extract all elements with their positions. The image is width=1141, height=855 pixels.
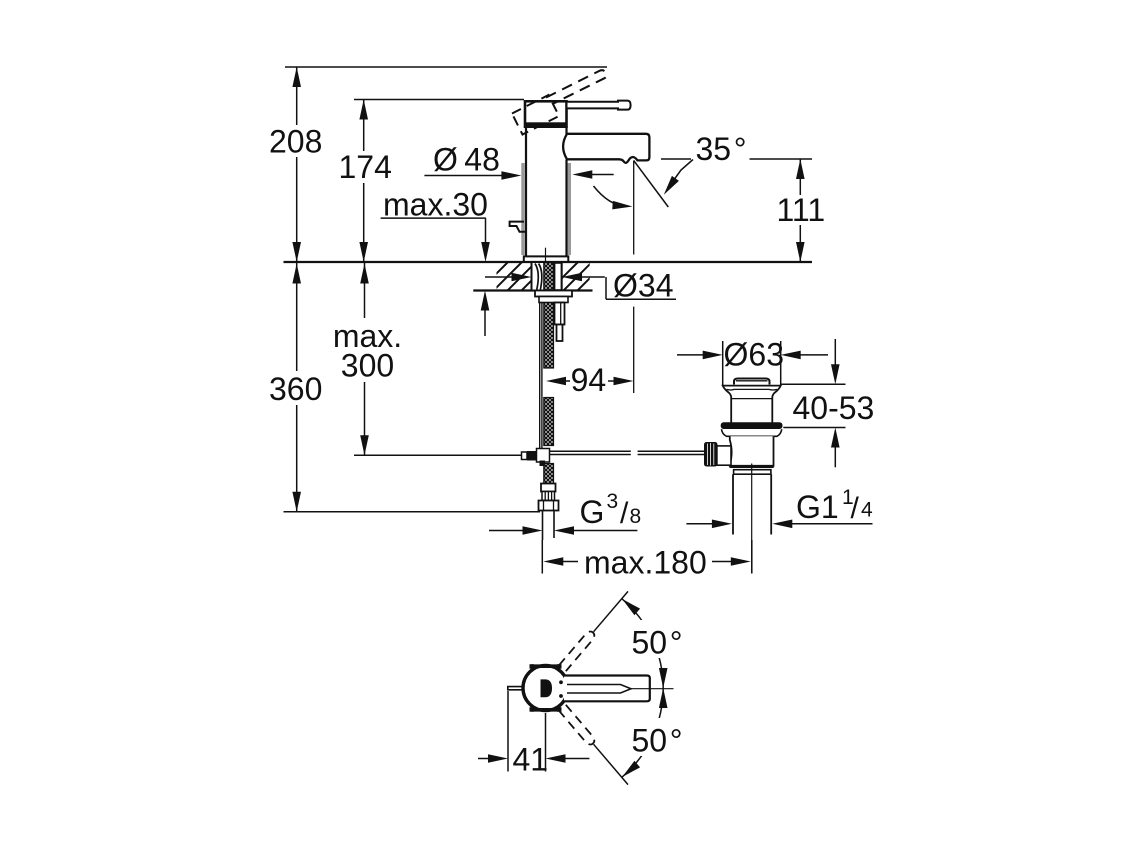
pop-up rod upper xyxy=(555,303,565,325)
drain knob xyxy=(704,442,718,467)
svg-text:94: 94 xyxy=(571,362,607,398)
pop-up lever tab xyxy=(510,222,526,232)
dim 40-53 arrows xyxy=(834,339,836,366)
svg-text:3: 3 xyxy=(607,490,619,513)
svg-text:360: 360 xyxy=(269,371,322,407)
dim G3/8 arrows xyxy=(489,530,524,532)
faucet base plate xyxy=(524,256,569,262)
drain plug dome xyxy=(734,379,770,385)
dim 40-53 bottom ref xyxy=(783,427,845,429)
cartridge D mark xyxy=(541,679,553,697)
G3/8 tube xyxy=(542,511,544,541)
drain O-ring xyxy=(721,422,783,429)
svg-text:max.180: max.180 xyxy=(584,545,707,581)
svg-text:max.30: max.30 xyxy=(383,187,488,223)
dim 41 arrows xyxy=(478,758,493,760)
dimension max300 xyxy=(364,263,366,318)
top view spout slot xyxy=(567,685,631,694)
spout outlet vertical reference xyxy=(633,161,635,255)
dim Ø34 arrows xyxy=(485,276,516,278)
dim 40-53 top ref xyxy=(781,383,845,385)
locknut below deck xyxy=(535,291,572,297)
shank thread curves xyxy=(535,264,542,290)
top view center line xyxy=(631,688,674,690)
50deg text backgrounds xyxy=(626,620,688,658)
svg-text:111: 111 xyxy=(777,192,826,228)
label Ø34 xyxy=(605,277,607,299)
drain tailpipe xyxy=(732,474,734,534)
dim max180 xyxy=(751,540,753,574)
top view 50deg arcs xyxy=(622,599,663,688)
dimension 111 xyxy=(799,159,801,195)
supply hose segment 2 xyxy=(544,398,554,446)
svg-text:G: G xyxy=(580,494,605,530)
label 35deg xyxy=(661,158,691,160)
handle housing bottom band xyxy=(524,122,568,127)
35 degree inclined line xyxy=(634,161,669,208)
svg-text:Ø34: Ø34 xyxy=(613,268,673,304)
arc arrows xyxy=(619,596,640,616)
faucet body xyxy=(526,127,567,256)
top view 50deg angle legs xyxy=(594,591,628,631)
supply hose segment 3 xyxy=(544,464,554,484)
handle housing xyxy=(525,101,567,126)
drain groove xyxy=(734,470,771,475)
pull rod vertical xyxy=(539,303,541,449)
reference line top 208 xyxy=(285,66,607,68)
svg-text:Ø63: Ø63 xyxy=(724,337,784,373)
faucet gray side strips xyxy=(521,163,524,255)
dim max30 lower arrow xyxy=(481,291,490,311)
dashed lever bottom-right xyxy=(559,705,596,747)
drain washer xyxy=(722,429,782,436)
top view body circle xyxy=(523,666,568,711)
drain body xyxy=(730,436,774,466)
pop-up rod in-hole xyxy=(555,263,562,290)
label 35deg leader arrow xyxy=(670,160,694,187)
washer step xyxy=(539,297,568,303)
swivel arc arrow xyxy=(594,186,627,206)
supply hose segment 1 xyxy=(544,297,554,369)
dim max30 leader xyxy=(381,217,486,219)
faucet center line xyxy=(545,248,547,263)
dim G1 1/4 arrows xyxy=(686,523,713,525)
dimension 208 xyxy=(296,67,298,125)
svg-text:41: 41 xyxy=(513,742,549,778)
svg-text:35 °: 35 ° xyxy=(696,131,747,167)
horizontal linkage rod xyxy=(550,451,705,454)
arrows-dim-left xyxy=(292,67,368,512)
deck hatching left xyxy=(478,262,550,292)
drain: Ø63 extension lines xyxy=(722,341,724,385)
top view spout xyxy=(564,676,650,702)
dashed handle lever (rotated) xyxy=(546,70,606,103)
detail dots xyxy=(559,680,563,684)
deck bottom line xyxy=(473,289,592,291)
svg-text:174: 174 xyxy=(339,149,392,185)
hose end ribs xyxy=(542,492,555,501)
deck hole shank xyxy=(532,262,562,291)
dimension 174 xyxy=(354,99,524,101)
svg-text:4: 4 xyxy=(861,499,873,522)
dim 41 extensions xyxy=(507,691,509,772)
svg-text:300: 300 xyxy=(341,348,394,384)
max180 left extension xyxy=(541,540,543,574)
drain knob stem xyxy=(717,446,731,465)
svg-text:208: 208 xyxy=(269,124,322,160)
svg-text:/: / xyxy=(851,492,860,525)
dimension 360 xyxy=(296,263,298,371)
svg-text:Ø 48: Ø 48 xyxy=(433,142,500,178)
svg-text:G1: G1 xyxy=(796,489,839,525)
hose end collar xyxy=(541,484,556,492)
svg-text:40-53: 40-53 xyxy=(793,390,875,426)
deck hatching right xyxy=(548,262,606,292)
G3/8 nut xyxy=(539,501,559,511)
supply hose in-hole segment xyxy=(544,263,554,291)
pop-up stub xyxy=(508,687,524,690)
dashed lever top-right xyxy=(559,630,596,672)
drain flange xyxy=(723,386,781,424)
svg-text:8: 8 xyxy=(630,505,642,528)
drain center line xyxy=(751,464,753,574)
dim Ø48 right arrow xyxy=(592,174,614,176)
svg-text:50 °: 50 ° xyxy=(632,723,683,759)
dimension 94 xyxy=(563,380,570,382)
spout xyxy=(563,134,649,163)
svg-text:/: / xyxy=(620,497,629,530)
tee fitting xyxy=(522,452,528,460)
deck top line xyxy=(284,261,813,263)
dim Ø63 arrows xyxy=(677,354,704,356)
svg-text:50 °: 50 ° xyxy=(632,625,683,661)
handle lever xyxy=(568,101,631,110)
dim Ø48 underline+left arrow xyxy=(424,175,503,177)
dashed handle housing (rotated) xyxy=(512,95,559,135)
drain body bottom band xyxy=(730,465,774,468)
top view flats xyxy=(531,664,560,668)
